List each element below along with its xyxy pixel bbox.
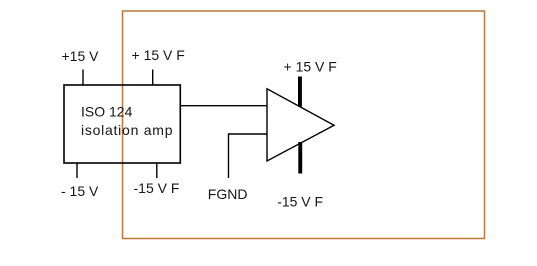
svg-text:FGND: FGND xyxy=(208,186,248,202)
svg-text:-15 V F: -15 V F xyxy=(277,193,323,209)
wire -15VF supply to U1 bottom-right xyxy=(156,163,158,178)
svg-text:ISO 124: ISO 124 xyxy=(81,104,133,120)
op-amp U2 triangle xyxy=(267,89,334,161)
svg-text:isolation amp: isolation amp xyxy=(81,122,173,138)
wire +15V supply to U1 top-left xyxy=(82,70,84,86)
svg-text:+ 15 V F: + 15 V F xyxy=(284,58,337,74)
wire +15VF supply to U1 top-right xyxy=(152,70,154,86)
wire FGND vertical xyxy=(228,133,230,178)
wire U1 output to op-amp noninverting input xyxy=(180,105,267,107)
field-side enclosure border xyxy=(123,11,485,239)
op-amp negative supply pin bar xyxy=(298,142,302,174)
svg-text:-15 V F: -15 V F xyxy=(134,180,180,196)
wire -15V supply to U1 bottom-left xyxy=(76,163,78,178)
isolation amp U1 box xyxy=(64,85,180,163)
svg-text:+15 V: +15 V xyxy=(62,48,100,64)
op-amp positive supply pin bar xyxy=(298,77,302,107)
wire FGND horizontal to op-amp inverting input xyxy=(229,133,268,135)
svg-text:+ 15 V F: + 15 V F xyxy=(132,47,185,63)
svg-text:- 15 V: - 15 V xyxy=(61,183,99,199)
U1 value label ISO 124 isolation amp xyxy=(81,104,173,139)
